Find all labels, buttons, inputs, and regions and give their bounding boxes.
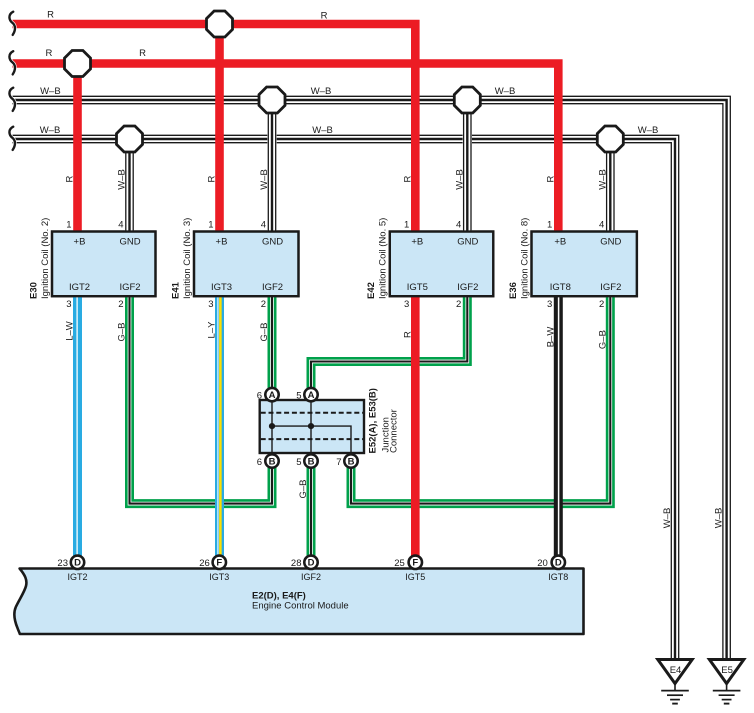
svg-text:IGF2: IGF2	[301, 572, 321, 582]
svg-text:IGF2: IGF2	[457, 282, 478, 293]
ignition coil E36 border	[532, 232, 637, 297]
svg-text:W–B: W–B	[40, 86, 61, 97]
ignition coil E41 body	[194, 232, 299, 297]
ground E4	[658, 660, 692, 704]
svg-text:+B: +B	[74, 237, 86, 248]
wire break row1	[9, 12, 15, 35]
svg-text:W–B: W–B	[117, 169, 128, 190]
junction pin B5	[304, 454, 317, 467]
junction internal line A6-B6	[271, 400, 273, 453]
svg-text:IGT2: IGT2	[67, 572, 87, 582]
svg-text:3: 3	[547, 299, 552, 310]
svg-text:G–B: G–B	[298, 479, 309, 498]
svg-text:L–W: L–W	[65, 321, 76, 341]
svg-text:2: 2	[599, 299, 604, 310]
svg-text:IGT5: IGT5	[407, 282, 428, 293]
wire W-B drop to E36 GND	[607, 139, 614, 232]
wire R bus row 1 to E42 +B	[13, 24, 416, 232]
wire W-B bus row 3 (to ground E5)	[13, 96, 731, 661]
svg-text:B: B	[348, 456, 355, 467]
svg-text:R: R	[45, 48, 52, 59]
junction node dot 2	[308, 423, 314, 429]
svg-text:7: 7	[336, 457, 341, 468]
splice joint row3 right	[454, 87, 480, 113]
svg-text:E36: E36	[508, 282, 519, 299]
svg-text:R: R	[207, 175, 218, 182]
svg-text:2: 2	[118, 299, 123, 310]
wire break row4	[9, 127, 15, 150]
junction internal dashed line lower	[261, 438, 363, 440]
wire G-B junction B7 to E36 IGF2	[351, 296, 610, 503]
svg-text:GND: GND	[457, 237, 478, 248]
svg-text:R: R	[139, 48, 146, 59]
svg-text:IGT8: IGT8	[550, 282, 571, 293]
svg-text:W–B: W–B	[597, 169, 608, 190]
wire break row2	[9, 51, 15, 74]
svg-text:1: 1	[66, 220, 71, 231]
wire W-B drop to E41 GND	[268, 100, 275, 232]
junction internal bus to B7	[272, 426, 351, 453]
svg-text:28: 28	[291, 558, 302, 569]
wire L-Y E41 IGT3 to ECM IGT3	[218, 296, 221, 562]
svg-text:IGT5: IGT5	[405, 572, 425, 582]
splice joint row3 left	[259, 87, 285, 113]
svg-text:W–B: W–B	[259, 169, 270, 190]
svg-text:GND: GND	[600, 237, 621, 248]
wire G-B E41 IGF2 to junction A6	[268, 296, 277, 394]
splice joint row1	[207, 11, 233, 37]
ignition coil E42 body	[390, 232, 494, 297]
svg-text:E5: E5	[721, 665, 733, 676]
junction pin B6	[265, 454, 278, 467]
svg-text:E42: E42	[366, 282, 377, 299]
junction node dot 1	[269, 423, 275, 429]
svg-text:R: R	[65, 175, 76, 182]
svg-text:2: 2	[261, 299, 266, 310]
svg-text:E30: E30	[28, 282, 39, 299]
wire R E42 IGT5 to ECM IGT5	[411, 296, 420, 562]
svg-text:1: 1	[547, 220, 552, 231]
svg-text:R: R	[47, 10, 54, 21]
junction pin A6	[265, 388, 278, 401]
svg-text:R: R	[321, 11, 328, 22]
svg-text:IGF2: IGF2	[119, 282, 140, 293]
svg-text:G–B: G–B	[597, 330, 608, 349]
wire G-B E42 IGF2 to junction A5	[311, 296, 467, 394]
svg-text:2: 2	[456, 299, 461, 310]
wire R drop to E41 +B	[215, 24, 224, 232]
wire R drop to E30 +B	[73, 64, 82, 232]
ECM pin 25 F	[409, 556, 422, 569]
svg-text:W–B: W–B	[312, 125, 333, 136]
svg-text:B: B	[269, 456, 276, 467]
svg-text:1: 1	[208, 220, 213, 231]
svg-text:F: F	[412, 558, 418, 569]
svg-text:Connector: Connector	[389, 409, 400, 453]
ECM pin 28 D	[304, 556, 317, 569]
svg-text:D: D	[74, 558, 81, 569]
wire W-B drop to E42 GND	[464, 100, 471, 232]
svg-text:D: D	[555, 558, 562, 569]
svg-text:D: D	[308, 558, 315, 569]
svg-text:IGT8: IGT8	[548, 572, 568, 582]
svg-text:R: R	[402, 331, 413, 338]
svg-text:5: 5	[296, 457, 301, 468]
svg-text:+B: +B	[216, 237, 228, 248]
svg-text:3: 3	[66, 299, 71, 310]
splice joint row2	[65, 51, 91, 77]
svg-text:4: 4	[599, 220, 604, 231]
ignition coil E36 body	[532, 232, 637, 297]
svg-text:W–B: W–B	[495, 86, 516, 97]
svg-text:Ignition Coil (No. 2): Ignition Coil (No. 2)	[40, 218, 51, 299]
ignition coil E42 border	[390, 232, 494, 297]
svg-text:E41: E41	[170, 281, 181, 299]
ground E5	[709, 660, 743, 704]
svg-text:6: 6	[257, 391, 262, 402]
svg-text:A: A	[269, 390, 276, 401]
svg-text:3: 3	[208, 299, 213, 310]
svg-text:B: B	[308, 456, 315, 467]
junction internal line A5-B5	[310, 400, 312, 453]
svg-text:20: 20	[537, 558, 548, 569]
ECM pin 20 D	[552, 556, 565, 569]
svg-text:25: 25	[394, 558, 405, 569]
svg-text:IGT3: IGT3	[211, 282, 232, 293]
svg-text:W–B: W–B	[714, 508, 725, 529]
ignition coil E41 border	[194, 232, 299, 297]
wire W-B bus row 4 (to ground E4)	[13, 135, 679, 661]
svg-text:IGT3: IGT3	[209, 572, 229, 582]
svg-text:B–W: B–W	[545, 327, 556, 348]
svg-text:W–B: W–B	[311, 86, 332, 97]
svg-text:4: 4	[118, 220, 123, 231]
splice joint row4 left	[117, 126, 143, 152]
ignition coil E30 body	[52, 232, 156, 297]
svg-text:6: 6	[257, 457, 262, 468]
junction connector E52(A)/E53(B) body	[260, 400, 364, 453]
svg-text:IGF2: IGF2	[600, 282, 621, 293]
svg-text:W–B: W–B	[638, 125, 659, 136]
svg-text:26: 26	[199, 558, 210, 569]
junction pin B7	[344, 454, 357, 467]
svg-text:L–Y: L–Y	[207, 321, 218, 339]
ECM pin 23 D	[71, 556, 84, 569]
ECM pin 26 F	[213, 556, 226, 569]
svg-text:W–B: W–B	[454, 169, 465, 190]
svg-text:A: A	[308, 390, 315, 401]
junction internal dashed line upper	[261, 412, 363, 414]
svg-text:Ignition Coil (No. 8): Ignition Coil (No. 8)	[519, 218, 530, 299]
svg-text:G–B: G–B	[259, 322, 270, 341]
svg-text:G–B: G–B	[117, 322, 128, 341]
wire L-W E30 IGT2 to ECM IGT2	[73, 296, 82, 562]
svg-text:W–B: W–B	[662, 508, 673, 529]
svg-text:R: R	[402, 175, 413, 182]
svg-text:E4: E4	[670, 665, 682, 676]
wire G-B E30 IGF2 to junction B6	[130, 296, 273, 503]
svg-text:GND: GND	[262, 237, 283, 248]
svg-text:E52(A), E53(B): E52(A), E53(B)	[368, 388, 379, 453]
svg-text:IGT2: IGT2	[69, 282, 90, 293]
svg-text:Engine Control Module: Engine Control Module	[252, 601, 349, 612]
svg-text:5: 5	[296, 391, 301, 402]
ignition coil E30 border	[52, 232, 156, 297]
junction pin A5	[304, 388, 317, 401]
svg-text:W–B: W–B	[40, 125, 61, 136]
wire R bus row 2 to E36 +B	[13, 64, 559, 232]
svg-text:4: 4	[261, 220, 266, 231]
svg-text:GND: GND	[119, 237, 140, 248]
svg-text:+B: +B	[554, 237, 566, 248]
svg-text:R: R	[545, 175, 556, 182]
svg-text:Ignition Coil (No. 5): Ignition Coil (No. 5)	[378, 218, 389, 299]
svg-text:23: 23	[57, 558, 68, 569]
svg-text:3: 3	[404, 299, 409, 310]
engine control module body	[14, 569, 583, 635]
svg-text:F: F	[216, 558, 222, 569]
splice joint row4 right	[597, 126, 623, 152]
svg-text:+B: +B	[411, 237, 423, 248]
wire G-B junction B5 to ECM IGF2	[307, 461, 316, 562]
svg-text:4: 4	[456, 220, 461, 231]
wire W-B drop to E30 GND	[126, 139, 133, 232]
svg-text:Ignition Coil (No. 3): Ignition Coil (No. 3)	[182, 218, 193, 299]
svg-text:1: 1	[404, 220, 409, 231]
wire B-W E36 IGT8 to ECM IGT8	[554, 296, 563, 562]
svg-text:IGF2: IGF2	[262, 282, 283, 293]
wire break row3	[9, 88, 15, 111]
